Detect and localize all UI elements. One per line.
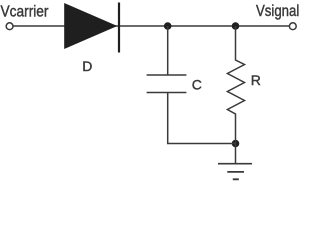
svg-text:Vcarrier: Vcarrier bbox=[1, 4, 50, 21]
svg-text:C: C bbox=[192, 77, 202, 93]
svg-text:R: R bbox=[251, 72, 261, 88]
svg-text:D: D bbox=[82, 58, 92, 74]
svg-text:Vsignal: Vsignal bbox=[256, 3, 299, 20]
